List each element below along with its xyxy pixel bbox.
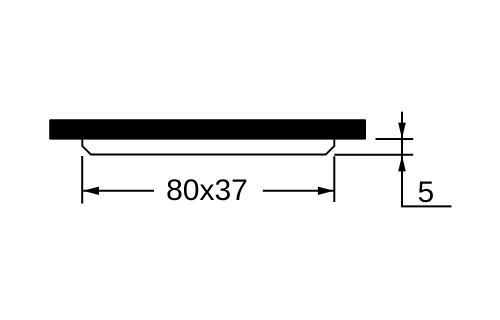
- dimension line left segment: [83, 190, 154, 192]
- left arrowhead: [83, 187, 99, 195]
- left extension line: [81, 156, 83, 204]
- upper tick line (top of 5 mm): [376, 138, 414, 140]
- dimension line right segment: [263, 190, 334, 192]
- mounting plate (solid black bar): [49, 119, 366, 139]
- leader shelf line under label 5: [401, 205, 451, 207]
- svg-text:80x37: 80x37: [166, 174, 248, 207]
- thickness dimension vertical line: [401, 112, 403, 207]
- svg-text:5: 5: [418, 176, 435, 209]
- lower tick line (bottom of 5 mm): [334, 154, 413, 156]
- right arrowhead: [318, 187, 334, 195]
- upper arrowhead (points down): [398, 123, 406, 139]
- lower arrowhead (points up): [398, 156, 406, 172]
- panel profile outline (80x37 frame cross-section, 5 thick): [82, 140, 334, 155]
- right extension line: [333, 156, 335, 202]
